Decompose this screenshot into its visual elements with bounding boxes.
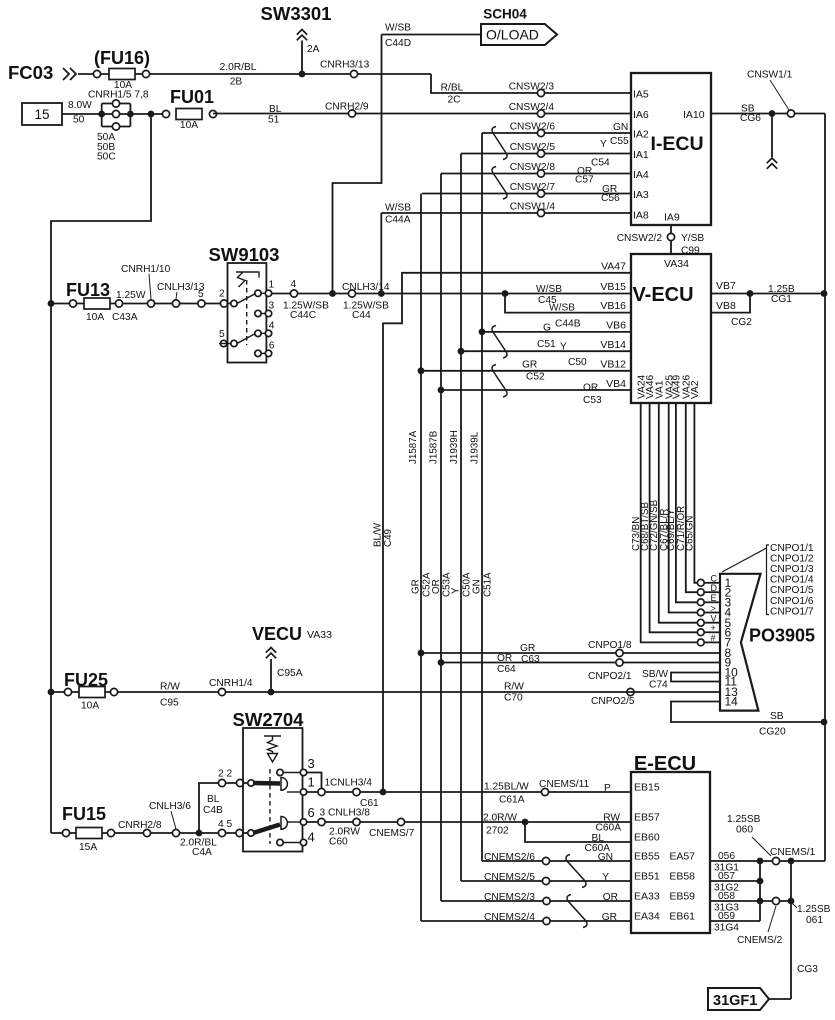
connector circle 3 (CNLH3/8)	[318, 818, 325, 825]
connector circle CNRH1/10	[147, 300, 154, 307]
svg-text:J1587B: J1587B	[429, 430, 440, 464]
svg-text:2B: 2B	[230, 77, 243, 88]
connector circle CNSW1/4	[537, 209, 544, 216]
svg-text:059: 059	[718, 911, 735, 922]
fuse FU15	[76, 828, 102, 839]
bus wire GN/J1939L	[481, 133, 483, 861]
junction W/SB C45 branch	[502, 290, 509, 297]
wire PO3905 pin 7 stub	[704, 641, 720, 643]
wire R/BL step down to CNSW2/3 row	[431, 74, 631, 93]
junction FU13 feeder	[48, 300, 55, 307]
switch SW2704 spring symbol	[264, 736, 281, 762]
switch lever pole2 (2704)	[253, 825, 280, 834]
connector circle CNLH3/4	[353, 788, 360, 795]
wire VA pin to PO3905 pin 3	[676, 403, 697, 602]
wire IA10 SB CG6 row	[711, 113, 825, 115]
svg-text:W/SB: W/SB	[536, 284, 562, 295]
svg-text:SCH04: SCH04	[483, 7, 527, 22]
wire VECU drop	[270, 659, 272, 692]
svg-text:50C: 50C	[97, 152, 116, 163]
wire VB7 1.25B CG1 row	[711, 293, 825, 295]
leader 1.25SB 061	[792, 903, 797, 908]
svg-text:EA57: EA57	[669, 851, 695, 863]
svg-text:R/W: R/W	[160, 682, 180, 693]
bracket CNPO1 group	[767, 545, 770, 615]
wire FC03 2.0R/BL row	[78, 73, 431, 75]
junction row1-vert791	[788, 858, 795, 865]
svg-text:VB15: VB15	[600, 281, 626, 293]
svg-text:2702: 2702	[486, 826, 509, 837]
contact pin6 edge	[265, 350, 271, 356]
svg-text:6: 6	[269, 341, 275, 352]
wire VB4 row	[441, 389, 631, 391]
svg-text:CNSW2/8: CNSW2/8	[510, 162, 556, 173]
switch lever pole1 (2704)	[253, 781, 280, 786]
connector circle FU25 right	[110, 688, 117, 695]
connector circle PO3905 pin 1	[697, 579, 704, 586]
junction VB7/VB8	[747, 290, 754, 297]
svg-text:1.25SB: 1.25SB	[727, 814, 761, 825]
wire CNSW1/4 W/SB C44A row to IA8	[381, 212, 631, 214]
connector circle CNEMS/1	[772, 857, 779, 864]
connector circle CNEMS2/5	[542, 877, 549, 884]
svg-text:CNSW2/7: CNSW2/7	[510, 182, 556, 193]
fuse FU25	[79, 687, 105, 698]
wire pin3 link	[261, 313, 266, 315]
connector circle PO3905 pin 2	[697, 589, 704, 596]
svg-text:1: 1	[269, 280, 275, 291]
svg-text:V-ECU: V-ECU	[632, 284, 693, 306]
ECU I-ECU box	[631, 73, 711, 225]
svg-text:CNPO1/6: CNPO1/6	[770, 596, 814, 607]
crossover slash CNEMS2/3-2/4	[567, 895, 587, 928]
svg-text:EA34: EA34	[634, 911, 660, 923]
svg-text:3: 3	[269, 301, 275, 312]
wire W/SB C44B branch to VB16	[505, 294, 631, 313]
connector circle PO3905 pin 3	[697, 599, 704, 606]
wire 1.25W/SB row to V-ECU VB15	[272, 293, 631, 295]
svg-text:C4B: C4B	[203, 805, 223, 816]
wire left feeder bus	[51, 114, 151, 833]
wire CNLH3/4 row to EB15	[307, 791, 631, 793]
svg-text:31GF1: 31GF1	[713, 993, 757, 1009]
svg-text:50: 50	[73, 115, 85, 126]
off-page arrow SW3301	[297, 30, 307, 41]
wire 31GF1 to CG3 bus	[769, 998, 791, 1000]
wire pin6 link (2704)	[287, 821, 300, 823]
connector circle PO3905 pin 5	[697, 619, 704, 626]
svg-text:C43A: C43A	[112, 312, 138, 323]
contact pin6 edge (2704)	[300, 819, 306, 825]
connector group top rung	[102, 103, 131, 105]
contact pin3 edge	[265, 310, 271, 316]
svg-text:CNPO1/1: CNPO1/1	[770, 543, 814, 554]
bus wire Y/J1939H	[460, 154, 462, 882]
wire EB61 row	[710, 920, 760, 922]
contact pin4 (2704)	[277, 839, 283, 845]
svg-text:FC03: FC03	[8, 62, 53, 83]
svg-text:Y: Y	[602, 872, 609, 883]
svg-text:VA34: VA34	[664, 258, 689, 270]
svg-text:CNEMS/2: CNEMS/2	[737, 935, 783, 946]
svg-text:C4A: C4A	[192, 847, 212, 858]
svg-text:14: 14	[725, 695, 739, 709]
connector circle FU16 right	[142, 70, 149, 77]
connector circle CNPO2/5	[627, 688, 634, 695]
svg-text:VB4: VB4	[606, 378, 626, 390]
svg-text:1: 1	[308, 775, 315, 790]
junction C44A on row	[378, 290, 385, 297]
svg-text:6: 6	[308, 805, 315, 820]
switch SW2704 linkage dashed	[269, 769, 271, 844]
contact pin4 edge	[265, 330, 271, 336]
switch SW9103 box	[228, 263, 267, 363]
wire IA9 to VA34	[670, 225, 672, 254]
svg-text:IA8: IA8	[633, 210, 649, 222]
svg-text:CNEMS2/3: CNEMS2/3	[484, 892, 535, 903]
connector circle CNSW2/2	[667, 233, 674, 240]
connector group right rail	[129, 104, 131, 127]
svg-text:C51: C51	[537, 339, 556, 350]
wire VA pin to PO3905 pin 5	[659, 403, 697, 623]
svg-text:CNSW2/4: CNSW2/4	[509, 102, 555, 113]
svg-text:R/BL: R/BL	[441, 83, 464, 94]
wire BL C60A branch to EB60	[525, 822, 631, 842]
contact D pin6	[281, 817, 287, 830]
crossover slash CNSW2/8-2/7	[492, 167, 507, 200]
connector circle CNRH2/8	[143, 829, 150, 836]
leader CNSW1/1	[770, 80, 789, 110]
fuse FU01	[176, 109, 202, 120]
wire BL/51 row to I-ECU	[213, 113, 631, 115]
svg-text:C49: C49	[383, 529, 394, 547]
wire CNLH3/8 row	[307, 821, 631, 823]
svg-text:C53: C53	[583, 395, 602, 406]
svg-text:(FU16): (FU16)	[94, 48, 150, 68]
svg-text:SW2704: SW2704	[233, 709, 305, 730]
connector circle FU15 left	[62, 829, 69, 836]
wire tie vertical 760	[759, 861, 761, 921]
svg-text:CNLH3/8: CNLH3/8	[328, 808, 370, 819]
wire CNEMS2/4 row	[421, 920, 631, 922]
wire FU25 R/W row	[51, 691, 720, 693]
junction GR bus CNPO1/8	[418, 650, 425, 657]
svg-text:C70: C70	[504, 693, 523, 704]
junction row2-vert760	[757, 878, 764, 885]
svg-text:C61A: C61A	[499, 795, 525, 806]
svg-text:OR: OR	[497, 653, 512, 664]
svg-text:CNSW2/3: CNSW2/3	[509, 82, 555, 93]
wire CNSW2/6 row	[482, 132, 631, 134]
svg-text:IA10: IA10	[683, 109, 705, 121]
wire VB14 row	[461, 350, 631, 352]
svg-text:C44: C44	[352, 310, 371, 321]
wire CNEMS2/3 row	[441, 900, 631, 902]
switch pivot pole2 outer	[220, 340, 226, 346]
wire pin3 jog	[307, 773, 322, 790]
svg-text:2: 2	[219, 289, 225, 300]
wire BL C4B branch to pin2	[199, 783, 249, 833]
connector circle 2	[220, 300, 227, 307]
svg-text:EB55: EB55	[634, 851, 660, 863]
svg-text:GR: GR	[602, 912, 617, 923]
connector PO3905 body	[720, 574, 761, 711]
wire SB/W C74 loop pins 10-11	[671, 673, 720, 682]
wire pin6 link	[261, 352, 266, 354]
junction CG20 right bus	[821, 719, 828, 726]
svg-text:CNLH3/4: CNLH3/4	[330, 778, 372, 789]
svg-text:CNRH1/5 7,8: CNRH1/5 7,8	[88, 90, 149, 101]
wire pin1 link (2704)	[287, 791, 300, 793]
junction VECU branch	[268, 689, 275, 696]
svg-text:BL: BL	[207, 794, 220, 805]
svg-text:OR: OR	[603, 892, 618, 903]
contact D pin1	[281, 778, 287, 791]
svg-text:060: 060	[736, 825, 753, 836]
connector circle CNEMS2/6	[542, 857, 549, 864]
connector circle CNSW2/5	[537, 150, 544, 157]
ECU V-ECU box	[631, 254, 711, 403]
svg-text:SW9103: SW9103	[209, 244, 280, 265]
wire row1 to right bus	[791, 860, 825, 862]
svg-text:GR: GR	[522, 360, 537, 371]
wire CNEMS2/6 row	[482, 860, 631, 862]
svg-text:IA5: IA5	[633, 89, 649, 101]
flag O/LOAD symbol	[481, 24, 557, 45]
svg-text:2.0R/W: 2.0R/W	[483, 813, 517, 824]
junction OR bus CNPO2/1	[438, 659, 445, 666]
svg-text:8.0W: 8.0W	[68, 100, 92, 111]
wire VB6 row	[482, 331, 631, 333]
svg-text:C44A: C44A	[385, 215, 411, 226]
junction BL C4B branch	[196, 830, 203, 837]
connector circle 50A	[112, 100, 119, 107]
wire pin5 stub	[219, 343, 231, 345]
junction row3-vert791	[788, 898, 795, 905]
svg-text:CNEMS2/6: CNEMS2/6	[484, 852, 535, 863]
svg-text:EA33: EA33	[634, 891, 660, 903]
wire W/SB C44A drop	[380, 213, 382, 294]
leader CNPO1 group	[722, 548, 767, 572]
junction OR bus VB4	[438, 387, 445, 394]
connector circle FU15 right	[107, 829, 114, 836]
svg-text:5: 5	[219, 329, 225, 340]
connector circle FU01 left	[162, 110, 169, 117]
svg-text:OR: OR	[431, 579, 442, 594]
svg-text:SB: SB	[770, 711, 784, 722]
svg-text:1.25BL/W: 1.25BL/W	[484, 782, 529, 793]
connector group bottom rung	[102, 126, 131, 128]
wire PO3905 pin 2 stub	[704, 591, 720, 593]
contact pin4 inner	[255, 330, 261, 336]
svg-text:CNEMS/7: CNEMS/7	[369, 828, 415, 839]
wire SW3301 drop	[301, 41, 303, 75]
wire FU13 row	[51, 303, 237, 305]
svg-text:W/SB: W/SB	[385, 23, 411, 34]
wire EA57 row	[710, 860, 791, 862]
wire 15 to connector group	[62, 113, 166, 115]
svg-text:VB16: VB16	[600, 300, 626, 312]
connector circle PO3905 pin 4	[697, 609, 704, 616]
svg-text:Y/SB: Y/SB	[681, 233, 704, 244]
svg-text:C44D: C44D	[385, 38, 411, 49]
svg-text:C54: C54	[591, 158, 610, 169]
wire EB59 row	[710, 900, 791, 902]
svg-text:IA2: IA2	[633, 129, 649, 141]
svg-text:FU25: FU25	[64, 670, 108, 690]
switch pivot pole1 (2704)	[248, 780, 254, 786]
connector circle FU16 left	[93, 70, 100, 77]
svg-text:W/SB: W/SB	[385, 203, 411, 214]
contact pin4 edge (2704)	[300, 839, 306, 845]
svg-text:IA3: IA3	[633, 189, 649, 201]
connector circle PO3905 pin 7	[697, 639, 704, 646]
fuse FU13	[84, 298, 110, 309]
svg-text:1.25SB: 1.25SB	[797, 904, 831, 915]
wire CNSW2/8 row	[441, 173, 631, 175]
svg-text:15: 15	[34, 107, 49, 122]
svg-text:CNEMS/1: CNEMS/1	[770, 847, 816, 858]
svg-text:P: P	[604, 783, 611, 794]
svg-text:BL: BL	[269, 104, 282, 115]
svg-text:2A: 2A	[307, 44, 320, 55]
svg-text:15A: 15A	[79, 842, 97, 853]
wire VA47 BL/W C49	[383, 273, 631, 792]
junction GR bus VB12	[418, 367, 425, 374]
svg-text:EB51: EB51	[634, 871, 660, 883]
svg-text:061: 061	[806, 915, 823, 926]
svg-text:Y: Y	[600, 139, 607, 150]
svg-text:J1939L: J1939L	[470, 431, 481, 464]
svg-text:4: 4	[308, 830, 315, 845]
svg-text:CNEMS2/4: CNEMS2/4	[484, 912, 535, 923]
junction FC03/SW3301	[299, 71, 306, 78]
svg-text:CNPO1/7: CNPO1/7	[770, 606, 814, 617]
connector circle CNLH3/8	[353, 818, 360, 825]
svg-text:4: 4	[291, 279, 297, 290]
svg-text:V: V	[711, 614, 717, 624]
svg-text:C44C: C44C	[290, 310, 316, 321]
svg-text:EB58: EB58	[669, 871, 695, 883]
svg-text:CNLH3/6: CNLH3/6	[149, 801, 191, 812]
wire PO3905 pin 1 stub	[704, 582, 720, 584]
leader CNRH1/10	[149, 274, 151, 299]
svg-text:E-ECU: E-ECU	[634, 753, 696, 775]
svg-text:CG1: CG1	[771, 294, 792, 305]
svg-text:PO3905: PO3905	[749, 626, 815, 646]
svg-text:EB60: EB60	[634, 832, 660, 844]
svg-text:J1939H: J1939H	[449, 430, 460, 464]
svg-text:C52: C52	[526, 372, 545, 383]
svg-text:CNRH1/10: CNRH1/10	[121, 264, 171, 275]
off-page arrow below IA10	[767, 158, 777, 169]
svg-text:VB7: VB7	[716, 280, 736, 292]
svg-text:D: D	[711, 583, 718, 593]
wire VB8 CG2 branch	[711, 294, 750, 313]
wire PO3905 pin 3 stub	[704, 601, 720, 603]
wire tie vertical 791 to 31GF1	[790, 861, 792, 999]
junction SW3301 branch on row	[329, 290, 336, 297]
wire SB CG20 from pin 14	[671, 702, 824, 723]
svg-text:VB6: VB6	[606, 320, 626, 332]
wire FU15 row	[51, 832, 249, 834]
junction Y bus VB14	[458, 348, 465, 355]
svg-text:CNPO1/3: CNPO1/3	[770, 564, 814, 575]
svg-text:CNPO2/5: CNPO2/5	[591, 696, 635, 707]
svg-text:VA2: VA2	[690, 380, 701, 399]
svg-text:Y: Y	[560, 342, 567, 353]
wire pin4 link	[261, 332, 266, 334]
connector circle CNPO2/1	[616, 659, 623, 666]
svg-text:C55: C55	[610, 136, 629, 147]
wire W/SB C44D to O/LOAD	[382, 34, 482, 36]
svg-text:J1587A: J1587A	[408, 430, 419, 464]
connector circle CNRH2/9	[348, 110, 355, 117]
svg-text:C65/GN: C65/GN	[685, 516, 696, 551]
connector circle CNSW1/1	[787, 110, 794, 117]
wire CNEMS2/5 row	[461, 880, 631, 882]
connector circle FU13 left	[69, 300, 76, 307]
connector circle PO3905 pin 6	[697, 629, 704, 636]
svg-text:056: 056	[718, 851, 735, 862]
switch SW9103 linkage dashed	[246, 280, 248, 345]
contact pin1 edge	[265, 290, 271, 296]
svg-text:#: #	[711, 633, 716, 643]
connector circle CNEMS/2	[772, 897, 779, 904]
svg-text:CNPO1/4: CNPO1/4	[770, 575, 814, 586]
svg-text:EB61: EB61	[669, 911, 695, 923]
svg-text:CNSW2/5: CNSW2/5	[510, 142, 556, 153]
svg-text:GR: GR	[520, 643, 535, 654]
svg-text:SB/W: SB/W	[642, 669, 668, 680]
svg-text:EB57: EB57	[634, 812, 660, 824]
svg-text:IA1: IA1	[633, 149, 649, 161]
svg-text:CNRH2/9: CNRH2/9	[325, 102, 369, 113]
switch SW2704 box	[243, 728, 303, 852]
svg-text:CG3: CG3	[797, 964, 818, 975]
junction GN bus VB6	[479, 329, 486, 336]
svg-text:3: 3	[308, 756, 315, 771]
svg-text:CNSW2/6: CNSW2/6	[510, 122, 556, 133]
contact pin1 edge (2704)	[300, 789, 306, 795]
wire EB58 row	[710, 880, 760, 882]
wire VB12 row	[421, 370, 631, 372]
connector circle 2b	[236, 779, 243, 786]
svg-text:GN: GN	[598, 852, 613, 863]
junction BL/W C49 on EB15 row	[380, 789, 387, 796]
svg-text:BL/W: BL/W	[373, 522, 384, 547]
svg-text:R/W: R/W	[504, 682, 524, 693]
svg-text:C64: C64	[497, 664, 516, 675]
svg-text:VB14: VB14	[600, 339, 626, 351]
svg-text:2C: 2C	[447, 95, 460, 106]
junction CG1 right bus	[821, 290, 828, 297]
junction row1-vert760	[757, 858, 764, 865]
wire VA pin to PO3905 pin 1	[694, 403, 697, 583]
svg-text:2.0R/BL: 2.0R/BL	[220, 62, 257, 73]
leader CNLH3/6	[171, 811, 176, 829]
wire pin1 link	[261, 292, 266, 294]
junction FU25 feeder	[48, 689, 55, 696]
svg-text:CNRH3/13: CNRH3/13	[320, 60, 370, 71]
connector circle FU01 right	[209, 110, 216, 117]
connector circle CNLH3/6	[172, 829, 179, 836]
svg-text:CNPO2/1: CNPO2/1	[588, 671, 632, 682]
connector circle 5 (fu15 row)	[236, 829, 243, 836]
svg-text:1.25W: 1.25W	[116, 290, 146, 301]
switch pivot pole2 (2704)	[248, 830, 254, 836]
svg-text:CNPO1/5: CNPO1/5	[770, 585, 814, 596]
